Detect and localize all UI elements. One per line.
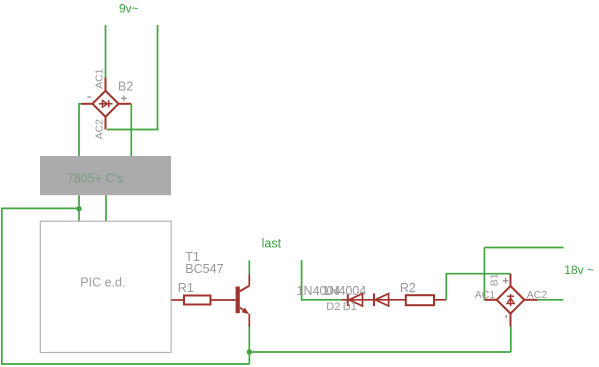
wire horizontal to B2 AC2 [107, 129, 158, 131]
wire bottom rail [1, 363, 249, 365]
wire emitter down to junction [248, 327, 250, 353]
bridge rectifier B2 [81, 78, 131, 130]
wire 7805 out left down [78, 195, 80, 221]
wire top right horizontal 18v [484, 247, 563, 249]
junction at emitter [247, 349, 252, 354]
svg-text:R2: R2 [400, 281, 416, 295]
wire 9v left vertical to B2 AC1 [105, 25, 107, 78]
diode D2 [348, 294, 363, 307]
svg-text:last: last [262, 236, 282, 250]
wire junction to left rail [2, 207, 79, 209]
svg-text:R1: R1 [178, 281, 194, 295]
wire last net down to diodes [302, 260, 342, 300]
svg-text:D1: D1 [343, 301, 357, 313]
svg-text:18v ~: 18v ~ [564, 263, 594, 277]
resistor R2 [406, 295, 447, 305]
wire 7805 out right down [105, 195, 107, 221]
wire bottom right rail to junction [249, 351, 510, 353]
svg-text:AC2: AC2 [93, 119, 105, 140]
wire bottom rail up to emitter junction [248, 352, 250, 364]
wire down to B1 AC1 [483, 248, 485, 301]
svg-text:PIC e.d.: PIC e.d. [80, 276, 125, 290]
svg-text:7805+ C's: 7805+ C's [67, 171, 123, 185]
svg-text:B2: B2 [118, 80, 133, 94]
7805 regulator module box [40, 156, 171, 195]
wire collector to last [248, 261, 250, 275]
B2 pin label + [121, 96, 127, 102]
diode chain red wire [341, 299, 405, 301]
B2 pin label - [87, 96, 91, 98]
wire 9v right vertical [157, 25, 159, 130]
B1 pin label + [503, 278, 509, 284]
svg-text:9v~: 9v~ [119, 2, 139, 16]
svg-text:BC547: BC547 [185, 262, 223, 276]
resistor R1 [171, 296, 235, 305]
wire left rail down [1, 208, 3, 364]
wire B2 minus down to 7805 [79, 104, 82, 157]
svg-text:AC1: AC1 [93, 68, 105, 89]
svg-text:D2: D2 [326, 301, 340, 313]
wire B1 minus down [510, 327, 512, 353]
svg-text:B1: B1 [488, 273, 500, 286]
svg-text:1N4004: 1N4004 [322, 284, 366, 298]
B1 pin label - [505, 315, 507, 318]
junction [76, 206, 81, 211]
PIC module box [40, 221, 171, 352]
bridge rectifier B1 [485, 274, 538, 327]
wire B1 AC2 right [537, 299, 563, 301]
transistor Q T1 BC547 [236, 275, 250, 328]
svg-text:AC1: AC1 [475, 289, 496, 301]
wire R2 to B1 plus pin [446, 274, 510, 300]
wire B2 plus down to 7805 [130, 104, 132, 157]
diode D1 [374, 294, 389, 307]
